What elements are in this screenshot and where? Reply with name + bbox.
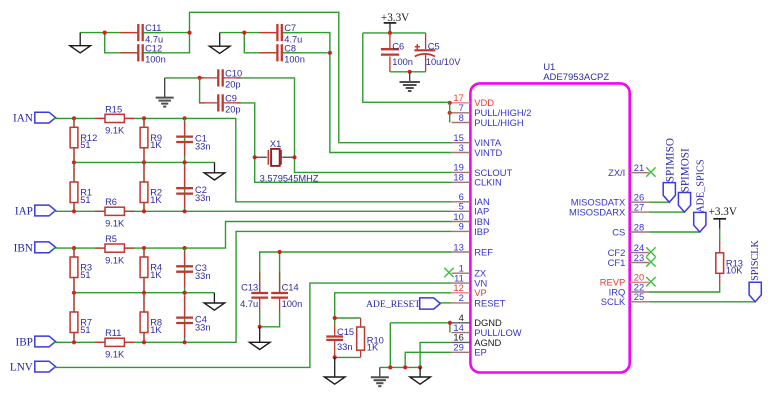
resistor R3: [70, 248, 92, 293]
capacitor C7: [259, 23, 302, 44]
svg-text:18: 18: [453, 172, 463, 183]
resistor R2: [140, 162, 162, 211]
svg-text:CLKIN: CLKIN: [474, 177, 502, 188]
no-connect cross pin 1 ZX: [444, 268, 453, 277]
wire C5/C6 ground link: [390, 71, 426, 73]
svg-text:ADE7953ACPZ: ADE7953ACPZ: [543, 72, 609, 83]
svg-text:C8: C8: [284, 43, 296, 53]
svg-text:33n: 33n: [195, 193, 211, 203]
junction: [408, 70, 412, 74]
ground (earth): [371, 367, 389, 386]
svg-text:51: 51: [80, 195, 90, 205]
svg-text:IAP: IAP: [15, 206, 33, 218]
svg-text:IBP: IBP: [474, 226, 489, 237]
wire net VINTD: [283, 33, 452, 153]
junction: [333, 316, 337, 320]
svg-text:C10: C10: [225, 68, 242, 78]
pin 19 SCLOUT: [452, 162, 513, 178]
net label SPIMOSI: [678, 148, 691, 212]
svg-text:13: 13: [453, 241, 463, 252]
junction: [142, 246, 146, 250]
resistor R5: [95, 234, 135, 265]
svg-text:VINTD: VINTD: [474, 147, 502, 158]
capacitor C9: [200, 93, 241, 114]
wire net REF: [260, 252, 452, 293]
ground: [209, 33, 230, 54]
connector IAP: [15, 205, 56, 217]
wire net IAN: [54, 118, 452, 201]
junction: [388, 365, 392, 369]
svg-text:SCLK: SCLK: [601, 296, 626, 307]
no-connect cross pin 24: [646, 247, 655, 256]
svg-text:R6: R6: [105, 197, 117, 207]
svg-text:CF1: CF1: [608, 257, 626, 268]
svg-text:2: 2: [459, 292, 464, 303]
svg-text:R15: R15: [105, 104, 122, 114]
junction: [253, 155, 257, 159]
wire net SPISCLK: [649, 301, 756, 303]
wire net VP: [335, 293, 452, 325]
wire C13/C14 bottom: [260, 312, 280, 326]
wire net AGND mid1: [74, 161, 215, 163]
junction: [72, 160, 76, 164]
resistor R10: [357, 318, 384, 357]
pin 16 AGND: [452, 332, 502, 348]
svg-text:IBP: IBP: [15, 337, 32, 349]
svg-text:LNV: LNV: [10, 362, 33, 374]
resistor R7: [70, 293, 92, 343]
net label ADE_SPICS: [694, 159, 707, 232]
net label SPISCLK: [749, 239, 761, 301]
wire net IBN: [54, 222, 452, 249]
junction: [183, 209, 187, 213]
junction: [72, 291, 76, 295]
ground (earth): [156, 78, 174, 107]
junction: [187, 30, 191, 34]
capacitor C6: [381, 33, 413, 72]
svg-text:1K: 1K: [367, 343, 379, 353]
pin 3 VINTD: [452, 142, 503, 158]
connector ADE_RESET: [366, 298, 440, 310]
no-connect cross pin 23: [646, 257, 655, 266]
junction: [142, 291, 146, 295]
svg-text:100n: 100n: [392, 57, 413, 67]
junction: [72, 246, 76, 250]
svg-text:1K: 1K: [150, 325, 162, 335]
junction: [333, 355, 337, 359]
svg-text:33n: 33n: [195, 271, 211, 281]
connector IAN: [13, 112, 56, 124]
svg-text:4.7u: 4.7u: [240, 299, 258, 309]
svg-text:CS: CS: [612, 226, 625, 237]
resistor R6: [95, 197, 135, 228]
pin 9 IBP: [452, 221, 490, 237]
svg-text:100n: 100n: [282, 299, 303, 309]
wire vertical C1/C2: [184, 118, 186, 211]
junction: [183, 246, 187, 250]
pin 20 REVP: [600, 272, 649, 288]
wire net SPIMISO: [649, 201, 669, 203]
capacitor C3: [176, 251, 210, 287]
wire C15/R10 bottom: [335, 356, 361, 358]
junction: [242, 30, 246, 34]
svg-text:C9: C9: [225, 93, 237, 103]
junction: [72, 116, 76, 120]
resistor R15: [95, 104, 135, 135]
capacitor C2: [176, 166, 210, 208]
svg-text:C14: C14: [282, 283, 299, 293]
ground: [204, 293, 225, 311]
pin 5 IAP: [452, 201, 490, 217]
svg-text:8: 8: [459, 112, 464, 123]
svg-text:27: 27: [634, 201, 644, 212]
pin 27 MISOSDARX: [569, 201, 649, 217]
svg-text:29: 29: [453, 342, 463, 353]
wire net ADE_RESET: [440, 302, 451, 304]
resistor R12: [70, 118, 97, 162]
svg-text:1K: 1K: [150, 270, 162, 280]
svg-text:R5: R5: [105, 234, 117, 244]
pin 21 ZX/I: [608, 162, 649, 178]
junction: [142, 340, 146, 344]
svg-text:+3.3V: +3.3V: [381, 12, 409, 24]
pin 17 VDD: [452, 92, 495, 108]
junction: [258, 325, 262, 329]
junction: [142, 160, 146, 164]
wire net XTAL1 (C10): [165, 78, 295, 157]
svg-text:C5: C5: [428, 41, 440, 51]
svg-text:20p: 20p: [225, 80, 241, 90]
svg-text:PULL/HIGH: PULL/HIGH: [474, 117, 524, 128]
svg-text:R11: R11: [105, 328, 121, 338]
svg-text:9.1K: 9.1K: [105, 126, 125, 136]
pin 2 RESET: [452, 292, 506, 308]
pin 26 MISOSDATX: [571, 192, 649, 208]
junction: [328, 51, 332, 55]
junction: [72, 340, 76, 344]
wire vertical R3/R7: [73, 248, 75, 342]
wire net GND to C11/C12: [80, 33, 137, 53]
connector IBP: [15, 336, 55, 348]
wire vertical R4/R8: [143, 248, 145, 342]
svg-text:3: 3: [459, 142, 464, 153]
connector IBN: [14, 242, 56, 254]
svg-text:10K: 10K: [726, 266, 743, 276]
ground: [70, 33, 91, 53]
pin 4 DGND: [452, 312, 502, 328]
pin 12 VP: [452, 282, 487, 298]
svg-text:C6: C6: [392, 41, 404, 51]
wire net DGND: [380, 323, 450, 368]
svg-text:C15: C15: [337, 327, 354, 337]
wire net IBP: [54, 231, 452, 342]
wire net GND to C7/C8: [220, 33, 277, 53]
pin 14 PULL/LOW: [452, 322, 522, 338]
wire net VINTA rail: [144, 12, 452, 142]
capacitor C10: [200, 68, 242, 89]
power +3.3V (pull-up): [709, 206, 737, 229]
pin 13 REF: [452, 241, 494, 257]
junction: [183, 160, 187, 164]
svg-text:9.1K: 9.1K: [105, 255, 125, 265]
junction: [388, 31, 392, 35]
capacitor C1: [176, 121, 210, 156]
junction: [142, 116, 146, 120]
pin 25 SCLK: [601, 291, 649, 307]
pin 15 VINTA: [452, 132, 502, 148]
capacitor C5 (polarized): [414, 33, 461, 72]
power +3.3V: [381, 12, 409, 33]
wire vertical R9/R2: [143, 118, 145, 211]
IC U1 ADE7953ACPZ outline: [470, 62, 629, 373]
junction: [448, 111, 452, 115]
wire net XTAL2 (C9): [200, 78, 255, 157]
svg-text:C11: C11: [145, 23, 161, 33]
svg-text:33n: 33n: [195, 141, 211, 151]
wire net ADE_SPICS: [649, 231, 700, 233]
no-connect cross pin 21: [646, 167, 655, 176]
svg-text:ADE_SPICS: ADE_SPICS: [696, 159, 707, 213]
junction: [448, 101, 452, 105]
svg-text:9.1K: 9.1K: [105, 350, 125, 360]
wire net +3.3V top: [363, 33, 450, 123]
wire net AGND mid2: [74, 292, 214, 294]
svg-text:SPIMOSI: SPIMOSI: [680, 148, 692, 192]
junction: [183, 340, 187, 344]
wire net SPIMOSI: [649, 211, 685, 213]
resistor R8: [140, 293, 162, 343]
svg-text:ZX/I: ZX/I: [608, 167, 625, 178]
pin 28 CS: [612, 221, 649, 237]
junction: [278, 250, 282, 254]
connector LNV: [10, 361, 56, 373]
pin 8 PULL/HIGH: [452, 112, 524, 128]
capacitor C11: [120, 23, 163, 44]
junction: [72, 209, 76, 213]
junction: [103, 30, 107, 34]
no-connect cross pin 20: [646, 277, 655, 286]
svg-text:C13: C13: [241, 283, 258, 293]
resistor R11: [95, 328, 135, 359]
pin 24 CF2: [608, 242, 649, 258]
capacitor C15: [326, 325, 354, 358]
svg-text:33n: 33n: [337, 342, 353, 352]
svg-text:9.1K: 9.1K: [105, 219, 125, 229]
capacitor C13: [240, 272, 268, 313]
pin 7 PULL/HIGH/2: [452, 102, 532, 118]
svg-text:25: 25: [634, 291, 644, 302]
svg-text:20p: 20p: [225, 105, 241, 115]
svg-text:9: 9: [459, 221, 464, 232]
pin 18 CLKIN: [452, 172, 502, 188]
svg-text:IBN: IBN: [14, 242, 33, 254]
resistor R4: [140, 248, 162, 293]
svg-text:23: 23: [634, 252, 644, 263]
resistor R1: [70, 162, 92, 211]
svg-text:SPIMISO: SPIMISO: [664, 138, 676, 182]
svg-text:28: 28: [634, 221, 644, 232]
svg-text:RESET: RESET: [474, 297, 506, 308]
svg-text:51: 51: [80, 325, 90, 335]
junction: [418, 365, 422, 369]
svg-text:33n: 33n: [195, 322, 211, 332]
svg-text:100n: 100n: [145, 55, 166, 65]
svg-text:+3.3V: +3.3V: [709, 206, 737, 218]
svg-text:21: 21: [634, 162, 644, 173]
pin 1 ZX: [452, 263, 487, 279]
svg-text:51: 51: [80, 140, 90, 150]
wire net EP: [405, 352, 451, 367]
svg-text:C7: C7: [284, 23, 296, 33]
junction: [448, 321, 452, 325]
junction: [198, 76, 202, 80]
svg-text:IAN: IAN: [13, 113, 33, 125]
resistor R9: [140, 118, 162, 162]
pin 10 IBN: [452, 211, 490, 227]
pin 11 VN: [452, 272, 488, 288]
junction: [183, 291, 187, 295]
svg-text:C12: C12: [145, 43, 162, 53]
wire net AGND: [420, 342, 452, 367]
crystal X1: [255, 139, 319, 183]
ground (earth): [400, 72, 420, 91]
ground: [324, 357, 345, 384]
resistor R13: [716, 242, 743, 283]
pin 6 IAN: [452, 191, 490, 207]
svg-text:ADE_RESET: ADE_RESET: [366, 299, 420, 310]
wire net LNV/VN: [54, 283, 452, 367]
net label SPIMISO: [663, 138, 676, 202]
svg-text:10u/10V: 10u/10V: [426, 57, 461, 67]
svg-text:1K: 1K: [150, 195, 162, 205]
junction: [403, 365, 407, 369]
svg-text:EP: EP: [474, 347, 487, 358]
svg-text:SPISCLK: SPISCLK: [750, 239, 761, 280]
svg-text:100n: 100n: [284, 55, 305, 65]
wire vertical C3/C4: [184, 248, 186, 342]
wire net CLKIN: [255, 157, 452, 182]
junction: [292, 155, 296, 159]
capacitor C8: [259, 43, 305, 64]
capacitor C14: [271, 272, 302, 313]
svg-text:MISOSDARX: MISOSDARX: [569, 207, 626, 218]
pin 29 EP: [452, 342, 487, 358]
wire vertical R12/R1: [73, 118, 75, 211]
wire net SCLOUT: [295, 157, 452, 172]
junction: [142, 209, 146, 213]
svg-text:REF: REF: [474, 246, 493, 257]
svg-text:1K: 1K: [150, 140, 162, 150]
wire net IAP: [54, 210, 452, 212]
pin 23 CF1: [608, 252, 649, 268]
junction: [183, 116, 187, 120]
wire net IRQ: [649, 229, 720, 292]
svg-text:X1: X1: [270, 139, 281, 149]
svg-text:51: 51: [80, 270, 90, 280]
ground: [204, 162, 225, 180]
capacitor C12: [120, 43, 166, 64]
capacitor C4: [176, 296, 210, 338]
pin 22 IRQ: [609, 281, 649, 297]
ground: [410, 367, 431, 384]
ground: [249, 327, 270, 350]
